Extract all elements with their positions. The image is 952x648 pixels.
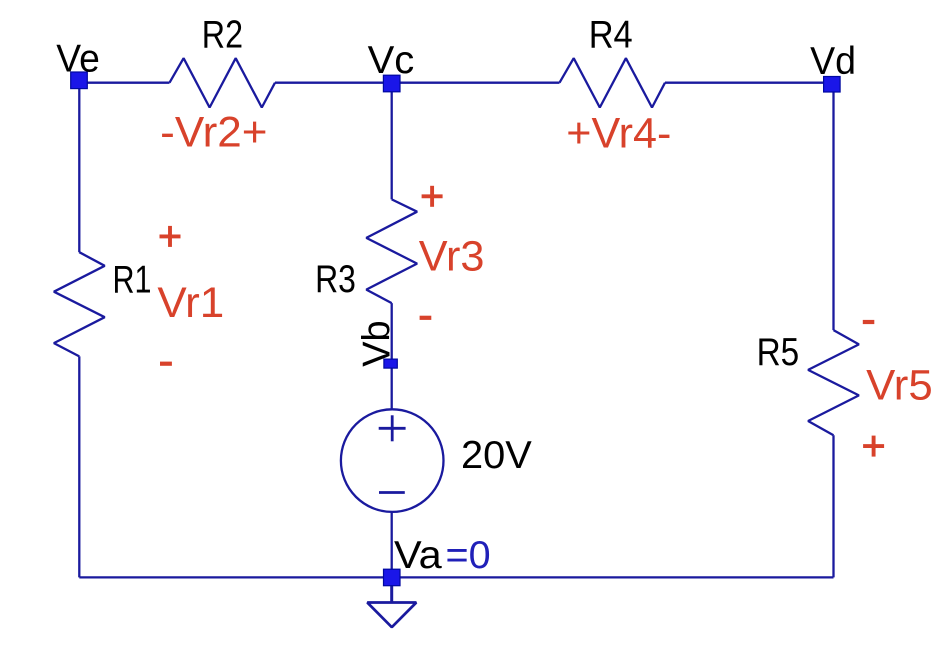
svg-text:R3: R3 bbox=[315, 258, 356, 301]
svg-text:Vr3: Vr3 bbox=[419, 233, 485, 281]
svg-text:+Vr4-: +Vr4- bbox=[566, 110, 671, 158]
svg-text:20V: 20V bbox=[461, 434, 532, 477]
svg-text:R1: R1 bbox=[113, 259, 152, 302]
svg-text:Vb: Vb bbox=[356, 320, 399, 366]
svg-text:-Vr2+: -Vr2+ bbox=[160, 109, 267, 157]
svg-text:Vd: Vd bbox=[810, 40, 856, 83]
svg-text:R2: R2 bbox=[202, 13, 243, 56]
svg-text:R5: R5 bbox=[757, 331, 800, 374]
svg-text:=0: =0 bbox=[446, 534, 491, 577]
svg-text:Vr1: Vr1 bbox=[157, 279, 224, 327]
svg-text:R4: R4 bbox=[589, 13, 633, 56]
svg-text:Va: Va bbox=[394, 534, 442, 577]
svg-text:Vc: Vc bbox=[368, 39, 415, 82]
svg-text:Ve: Ve bbox=[56, 38, 100, 81]
svg-text:Vr5: Vr5 bbox=[866, 361, 933, 409]
